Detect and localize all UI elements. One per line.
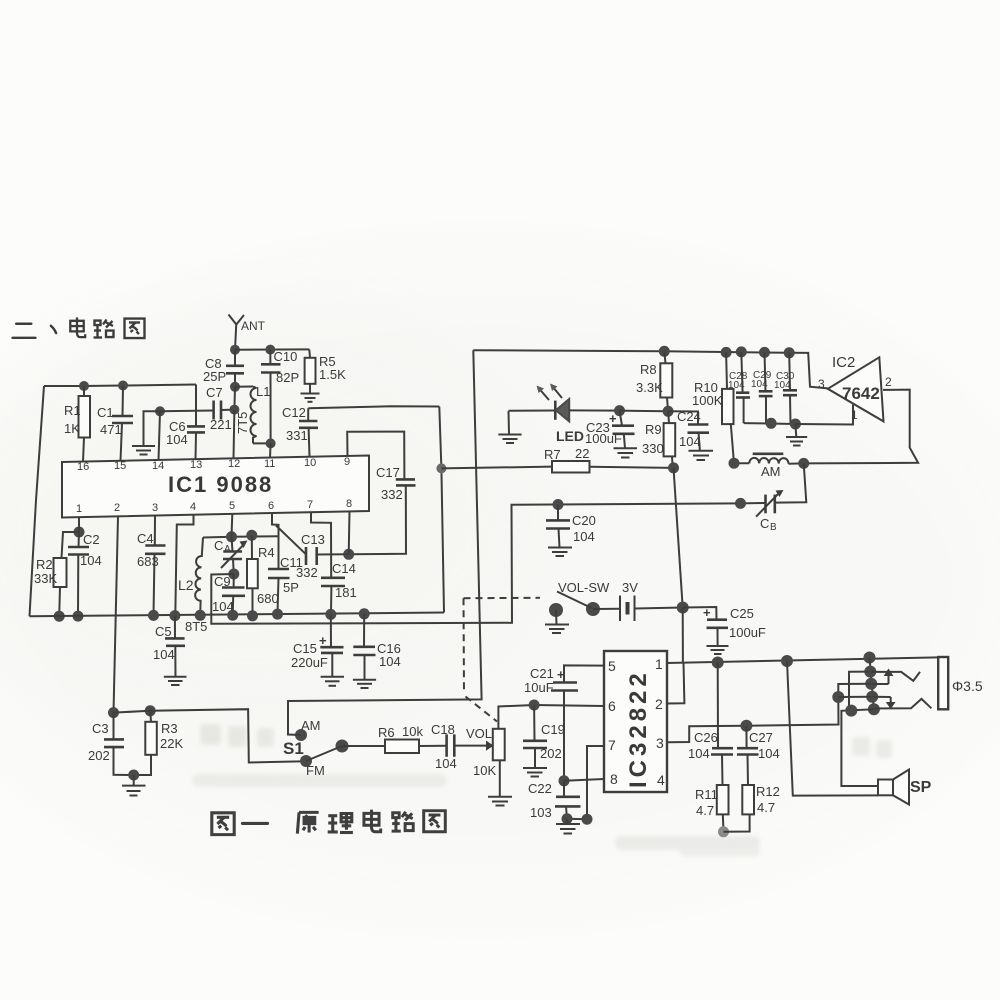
wire pin12 xyxy=(233,410,236,459)
node C23 top xyxy=(614,405,625,416)
jack contact spring upper xyxy=(871,672,920,681)
svg-text:VOL-SW: VOL-SW xyxy=(558,580,610,595)
svg-text:R6: R6 xyxy=(378,725,395,740)
svg-text:104: 104 xyxy=(774,380,791,391)
node R11 bottom xyxy=(718,826,729,837)
svg-text:332: 332 xyxy=(381,487,403,502)
svg-text:683: 683 xyxy=(137,554,159,569)
svg-text:104: 104 xyxy=(573,529,595,544)
ground below R5 xyxy=(301,394,320,402)
ground below C16 xyxy=(353,680,376,688)
inductor L2 xyxy=(178,538,203,616)
node AM right xyxy=(798,458,809,469)
svg-text:L1: L1 xyxy=(256,384,270,399)
capacitor C6 104 xyxy=(166,385,205,460)
node audio R3 xyxy=(145,705,156,716)
svg-text:C4: C4 xyxy=(137,531,154,546)
svg-text:25P: 25P xyxy=(203,369,226,384)
node C22 top pin8 xyxy=(559,775,570,786)
svg-text:104: 104 xyxy=(379,654,401,669)
svg-text:6: 6 xyxy=(608,698,616,714)
op-amp IC1 9088 body xyxy=(62,456,369,518)
resistor R11 4.7 xyxy=(695,785,729,832)
node jack ring xyxy=(865,678,877,690)
wire pin2 jog xyxy=(667,663,684,704)
wire pin8 xyxy=(564,779,604,781)
wire pin8 xyxy=(348,511,351,554)
switch VOL-SW xyxy=(549,580,610,625)
wire jack tip stub xyxy=(849,672,870,711)
svg-text:100uF: 100uF xyxy=(729,625,766,640)
capacitor C14 181 xyxy=(321,561,357,614)
wire pin6 jog xyxy=(272,513,279,569)
wire R11 R12 bottom jog xyxy=(724,814,750,831)
svg-text:C2: C2 xyxy=(83,532,100,547)
node pin5 top line xyxy=(226,531,237,542)
svg-text:8T5: 8T5 xyxy=(185,619,207,634)
svg-text:C: C xyxy=(214,538,223,553)
svg-text:3V: 3V xyxy=(622,580,638,595)
node ring corner xyxy=(832,691,844,703)
svg-text:4.7: 4.7 xyxy=(757,800,775,815)
capacitor C8 25P xyxy=(203,350,244,387)
svg-text:C5: C5 xyxy=(155,624,172,639)
ground below C19 xyxy=(523,768,547,777)
wire pin14 down xyxy=(159,411,161,460)
node C30 ground join xyxy=(790,419,801,430)
node pin8 C17 C13 xyxy=(343,549,354,560)
svg-text:104: 104 xyxy=(166,432,188,447)
section title 二、电路图 xyxy=(13,317,145,338)
capacitor C1 471 xyxy=(97,386,133,462)
resistor R6 10k xyxy=(378,724,447,753)
wire speaker return xyxy=(787,661,878,796)
node rail speaker return xyxy=(781,655,793,667)
svg-text:11: 11 xyxy=(264,458,275,470)
amplifier IC32822 body xyxy=(604,651,667,792)
svg-text:220uF: 220uF xyxy=(291,655,328,670)
svg-text:10k: 10k xyxy=(402,724,423,739)
capacitor C23 100uF polarized xyxy=(585,411,635,449)
svg-text:6: 6 xyxy=(268,500,274,512)
svg-text:R9: R9 xyxy=(645,422,662,437)
capacitor C15 220uF polarized xyxy=(291,614,344,676)
node C2 top pin1 xyxy=(74,527,85,538)
ground below C3 R3 xyxy=(122,775,146,796)
wire pin5 xyxy=(231,514,234,537)
svg-text:1: 1 xyxy=(851,408,858,422)
node R4 bottom xyxy=(247,610,258,621)
svg-text:16: 16 xyxy=(77,461,89,473)
antenna ANT xyxy=(229,315,266,350)
svg-text:10: 10 xyxy=(304,457,316,469)
IC32822 pin labels xyxy=(608,656,665,788)
svg-text:104: 104 xyxy=(751,379,768,390)
capacitor C11 5P xyxy=(268,555,303,614)
svg-text:R2: R2 xyxy=(36,557,53,572)
wire pin4 jog xyxy=(175,515,193,616)
svg-text:4: 4 xyxy=(190,501,196,513)
svg-text:3: 3 xyxy=(656,735,664,751)
svg-text:8: 8 xyxy=(346,498,352,510)
svg-text:332: 332 xyxy=(296,565,318,580)
svg-text:680: 680 xyxy=(257,591,279,606)
node audio C3 xyxy=(108,707,119,718)
svg-text:7: 7 xyxy=(608,737,616,753)
svg-text:14: 14 xyxy=(152,460,164,472)
wire C12 to right vertical xyxy=(308,406,439,408)
node C4 bottom xyxy=(148,610,159,621)
svg-text:7T5: 7T5 xyxy=(235,412,250,434)
svg-text:SP: SP xyxy=(910,779,932,796)
op-amp IC2 7642 xyxy=(818,354,892,422)
capacitor C26 104 xyxy=(688,663,733,786)
wire pin1 down xyxy=(78,517,80,532)
node C7 right pin12 xyxy=(229,405,239,415)
svg-text:100K: 100K xyxy=(692,393,723,408)
capacitor C29 104 xyxy=(751,352,773,423)
capacitor C22 103 xyxy=(528,781,581,820)
svg-text:C: C xyxy=(760,516,769,531)
variable capacitor CA xyxy=(214,537,248,574)
IC1 pin numbers top row xyxy=(77,456,350,473)
svg-text:22: 22 xyxy=(575,446,589,461)
capacitor C2 104 xyxy=(68,532,102,616)
wire top supply bus right section xyxy=(473,350,828,388)
node C2 bottom xyxy=(73,611,84,622)
node rail C26 xyxy=(712,657,724,669)
node pin7 corner xyxy=(582,814,593,825)
phone jack body xyxy=(938,657,983,709)
svg-text:C18: C18 xyxy=(431,722,455,737)
svg-text:IC2: IC2 xyxy=(832,354,855,371)
capacitor C12 331 xyxy=(282,405,318,457)
svg-text:181: 181 xyxy=(335,585,357,600)
node L2 bottom xyxy=(195,610,206,621)
svg-text:1.5K: 1.5K xyxy=(319,367,346,382)
ground below C5 xyxy=(164,677,187,685)
node R7 left xyxy=(436,463,446,473)
svg-text:4.7: 4.7 xyxy=(696,803,714,818)
node jack sw1 xyxy=(866,691,878,703)
node jack tip xyxy=(864,666,876,678)
wire ground jog xyxy=(144,411,161,446)
wire sw1 stub xyxy=(838,696,872,698)
node C15 top xyxy=(325,609,336,620)
capacitor C28 104 xyxy=(728,352,750,423)
svg-text:R4: R4 xyxy=(258,545,275,560)
svg-text:C17: C17 xyxy=(376,465,400,480)
wire left frame xyxy=(30,386,45,616)
switch S1 AM/FM xyxy=(283,718,349,778)
svg-text:2: 2 xyxy=(655,696,663,712)
node CB left tank xyxy=(735,498,746,509)
svg-text:ANT: ANT xyxy=(241,319,266,333)
svg-text:104: 104 xyxy=(688,746,710,761)
node C29 C28 join xyxy=(766,418,777,429)
wire CA R4 top line xyxy=(203,536,279,537)
svg-text:4: 4 xyxy=(657,772,665,788)
svg-text:10uF: 10uF xyxy=(524,680,554,695)
svg-text:C3: C3 xyxy=(92,721,109,736)
svg-text:C26: C26 xyxy=(694,730,718,745)
svg-text:+: + xyxy=(319,633,327,648)
svg-text:9: 9 xyxy=(344,456,350,468)
resistor R4 680 xyxy=(247,535,279,616)
node C10 top xyxy=(265,345,275,355)
svg-text:C27: C27 xyxy=(749,730,773,745)
ground at pin14 xyxy=(132,446,155,455)
capacitor C7 221 xyxy=(206,385,234,432)
svg-text:2: 2 xyxy=(114,502,120,514)
svg-text:15: 15 xyxy=(114,460,126,472)
capacitor C30 104 xyxy=(774,353,797,424)
ground below C24 xyxy=(689,451,714,460)
node R8 R9 C24 xyxy=(663,406,674,417)
svg-text:IC32822: IC32822 xyxy=(625,669,652,788)
wire left top bus xyxy=(44,385,196,387)
svg-text:L2: L2 xyxy=(178,577,194,593)
svg-text:330: 330 xyxy=(642,441,664,456)
ground below C20 xyxy=(548,548,572,557)
node jack sw2 xyxy=(868,703,880,715)
capacitor C3 202 xyxy=(88,713,134,775)
wire C28 C29 C30 common xyxy=(744,422,796,425)
LED indicator xyxy=(509,384,620,445)
wire AM tank link xyxy=(211,503,740,623)
svg-text:C19: C19 xyxy=(541,722,565,737)
wire S1 common to R6 xyxy=(342,745,385,747)
svg-text:2: 2 xyxy=(885,375,892,389)
ground at LED xyxy=(498,435,521,444)
jack contact column xyxy=(870,658,874,710)
wire pin11 xyxy=(269,443,272,457)
capacitor C18 104 xyxy=(431,722,494,771)
svg-text:+: + xyxy=(609,411,617,426)
capacitor C16 104 xyxy=(353,614,401,680)
svg-text:FM: FM xyxy=(306,763,325,778)
svg-text:C10: C10 xyxy=(274,349,298,364)
svg-text:104: 104 xyxy=(728,380,745,391)
svg-text:+: + xyxy=(703,605,711,620)
svg-text:C13: C13 xyxy=(301,532,325,547)
node R9 bottom R7 xyxy=(668,462,679,473)
svg-text:104: 104 xyxy=(758,746,780,761)
svg-text:5: 5 xyxy=(608,658,616,674)
capacitor C27 104 xyxy=(737,726,780,785)
wire C8 bottom to pin12 xyxy=(233,387,236,410)
wire battery to rail xyxy=(682,608,684,663)
svg-text:1: 1 xyxy=(655,656,663,672)
svg-text:C22: C22 xyxy=(528,781,552,796)
wire right vertical of FM block xyxy=(439,407,444,613)
jack plug arrow down xyxy=(872,697,895,709)
svg-text:331: 331 xyxy=(286,428,308,443)
node C22 bottom xyxy=(562,813,573,824)
variable capacitor CB xyxy=(741,463,807,533)
svg-text:S1: S1 xyxy=(283,739,304,758)
svg-text:R1: R1 xyxy=(64,403,81,418)
svg-text:IC1 9088: IC1 9088 xyxy=(168,472,273,497)
wire LED node to R8R9 xyxy=(620,410,669,413)
wire audio node to FM contact xyxy=(114,709,307,762)
capacitor C13 332 xyxy=(276,526,349,581)
svg-text:104: 104 xyxy=(153,647,175,662)
wire sw2 speaker line xyxy=(841,709,878,786)
node R2 bottom xyxy=(54,611,65,622)
node C1 top xyxy=(118,381,128,391)
capacitor C19 202 xyxy=(523,705,565,768)
svg-text:LED: LED xyxy=(556,428,584,444)
node C9 bottom xyxy=(227,610,238,621)
ground below C23 xyxy=(614,448,638,457)
resistor R1 1K xyxy=(64,386,90,462)
node C11 bottom xyxy=(272,609,283,620)
svg-text:R3: R3 xyxy=(161,721,178,736)
resistor R9 330 xyxy=(642,411,675,468)
capacitor C10 82P xyxy=(261,349,299,443)
svg-text:8: 8 xyxy=(610,771,618,787)
svg-text:202: 202 xyxy=(88,748,110,763)
svg-text:104: 104 xyxy=(679,434,701,449)
capacitor C9 104 xyxy=(212,574,245,615)
svg-text:AM: AM xyxy=(301,718,321,733)
svg-text:5P: 5P xyxy=(283,580,299,595)
ground below C15 xyxy=(321,677,344,686)
node C16 top xyxy=(359,608,370,619)
svg-text:C15: C15 xyxy=(293,641,317,656)
node L1 bottom pin11 xyxy=(266,438,276,448)
jack plug arrow up xyxy=(872,669,893,685)
svg-text:13: 13 xyxy=(190,459,202,471)
svg-text:C9: C9 xyxy=(214,574,231,589)
wire R9 bottom to battery node xyxy=(674,468,683,608)
wire pin2 down to audio node xyxy=(114,516,119,712)
resistor R5 1.5K xyxy=(305,349,346,393)
ground below C22 xyxy=(556,819,580,834)
capacitor C5 104 xyxy=(153,616,185,677)
jack contact spring lower xyxy=(874,699,932,709)
dashed gang coupling xyxy=(464,598,541,722)
svg-text:R12: R12 xyxy=(756,784,780,799)
wire pin3 line xyxy=(667,697,839,742)
svg-text:104: 104 xyxy=(80,553,102,568)
svg-text:C7: C7 xyxy=(206,385,223,400)
node C30 top xyxy=(784,347,795,358)
svg-text:202: 202 xyxy=(540,746,562,761)
capacitor C25 100uF polarized xyxy=(683,605,766,646)
svg-text:1K: 1K xyxy=(64,421,80,436)
svg-text:104: 104 xyxy=(435,756,457,771)
node R4 top xyxy=(246,530,257,541)
node AM left R10 xyxy=(729,458,740,469)
wire ground node to IC2 pin1 xyxy=(795,405,853,425)
svg-text:C14: C14 xyxy=(332,561,356,576)
wire antenna top rail xyxy=(235,348,309,350)
svg-text:R7: R7 xyxy=(544,447,561,462)
resistor R10 100K xyxy=(692,352,734,463)
svg-text:C12: C12 xyxy=(282,405,306,420)
svg-text:C1: C1 xyxy=(97,405,114,420)
svg-text:3.3K: 3.3K xyxy=(636,380,663,395)
resistor R3 22K xyxy=(134,711,184,775)
wire AM contact feed xyxy=(288,350,482,735)
wire IC2 pin2 to AM coil xyxy=(804,390,918,464)
inductor L1 7T5 xyxy=(235,384,271,443)
svg-text:7: 7 xyxy=(307,499,313,511)
capacitor C17 332 xyxy=(347,432,415,555)
svg-text:1: 1 xyxy=(76,503,82,515)
node pin4 C5 bus xyxy=(169,610,180,621)
svg-text:471: 471 xyxy=(100,422,122,437)
resistor R7 22 xyxy=(441,446,673,473)
label 8T5 xyxy=(185,619,207,634)
node C19 pin6 xyxy=(529,700,540,711)
wire pin5 to C21 xyxy=(564,665,604,682)
wire pin7 jog xyxy=(311,512,331,578)
svg-text:AM: AM xyxy=(761,464,781,479)
svg-text:R11: R11 xyxy=(695,787,718,802)
svg-text:10K: 10K xyxy=(473,763,496,778)
node R8 top xyxy=(659,346,670,357)
wire pin7 jog xyxy=(567,746,604,819)
capacitor C21 10uF polarized xyxy=(524,666,578,781)
svg-text:A: A xyxy=(224,544,231,555)
svg-text:5: 5 xyxy=(229,500,235,512)
node CA bottom C9 top xyxy=(228,569,239,580)
wire main bottom bus xyxy=(30,613,445,617)
svg-text:C21: C21 xyxy=(530,666,554,681)
svg-text:3: 3 xyxy=(818,377,825,391)
IC1 pin numbers bottom row xyxy=(76,498,352,515)
svg-text:82P: 82P xyxy=(276,370,299,385)
resistor R12 4.7 xyxy=(742,784,780,815)
resistor R2 33K xyxy=(34,532,79,616)
svg-text:103: 103 xyxy=(530,805,552,820)
wire pin14 node to C7 xyxy=(160,410,214,413)
node C20 top xyxy=(553,499,564,510)
svg-text:Φ3.5: Φ3.5 xyxy=(952,678,983,694)
ground below VOL xyxy=(488,797,512,806)
node rail jack xyxy=(864,652,876,664)
svg-text:100uF: 100uF xyxy=(585,431,622,446)
ground below C25 xyxy=(707,646,729,654)
node C3 R3 bottom xyxy=(128,770,139,781)
capacitor C24 104 xyxy=(668,409,709,451)
ground below VOL-SW xyxy=(545,625,569,634)
ground at C30 xyxy=(786,424,807,446)
svg-text:+: + xyxy=(557,667,565,682)
svg-text:R8: R8 xyxy=(640,362,657,377)
wire pin6 line xyxy=(534,705,604,706)
battery 3V xyxy=(593,580,683,621)
node ant junction xyxy=(230,345,240,355)
node C29 top xyxy=(759,347,770,358)
node R1 top xyxy=(79,381,89,391)
node C8 bottom xyxy=(230,382,240,392)
potentiometer VOL 10K xyxy=(466,705,534,797)
wire jack ring stub xyxy=(838,684,871,697)
capacitor C20 104 xyxy=(546,505,596,548)
svg-text:VOL: VOL xyxy=(466,726,492,741)
figure caption 图一 原理电路图 xyxy=(212,810,445,835)
speaker SP xyxy=(878,770,932,805)
node battery plus xyxy=(677,602,689,614)
node speaker feed xyxy=(845,705,857,717)
svg-text:221: 221 xyxy=(210,417,232,432)
svg-text:33K: 33K xyxy=(34,571,57,586)
svg-text:B: B xyxy=(770,522,777,533)
